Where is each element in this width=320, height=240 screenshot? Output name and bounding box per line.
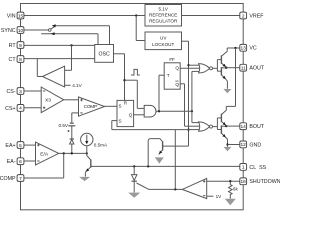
svg-text:CS+: CS+ bbox=[5, 106, 15, 112]
svg-text:5: 5 bbox=[19, 143, 22, 149]
svg-text:COMP: COMP bbox=[0, 176, 16, 182]
svg-text:3: 3 bbox=[19, 89, 22, 95]
svg-text:S: S bbox=[119, 119, 122, 124]
svg-text:9: 9 bbox=[19, 43, 22, 49]
svg-text:T: T bbox=[167, 73, 170, 78]
svg-text:LOCKOUT: LOCKOUT bbox=[152, 42, 174, 47]
svg-text:6: 6 bbox=[19, 159, 22, 165]
svg-text:13: 13 bbox=[241, 46, 247, 52]
svg-text:4.1V: 4.1V bbox=[72, 83, 82, 88]
svg-text:10: 10 bbox=[18, 28, 24, 34]
svg-text:UV: UV bbox=[160, 35, 167, 40]
svg-text:X3: X3 bbox=[45, 98, 51, 104]
svg-text:RT: RT bbox=[9, 43, 17, 49]
svg-text:E/A: E/A bbox=[40, 151, 49, 157]
svg-text:AOUT: AOUT bbox=[249, 66, 264, 72]
svg-text:1V: 1V bbox=[216, 194, 223, 199]
svg-text:0.5V: 0.5V bbox=[59, 123, 69, 128]
svg-text:0.5mA: 0.5mA bbox=[94, 143, 108, 148]
svg-text:6k: 6k bbox=[233, 186, 239, 191]
svg-text:BOUT: BOUT bbox=[249, 124, 264, 130]
svg-text:S: S bbox=[119, 104, 122, 109]
svg-text:8: 8 bbox=[19, 57, 22, 63]
svg-text:14: 14 bbox=[241, 124, 247, 130]
svg-text:15: 15 bbox=[18, 13, 24, 19]
svg-text:GND: GND bbox=[249, 142, 261, 148]
svg-text:CL SS: CL SS bbox=[249, 165, 266, 171]
svg-text:Q: Q bbox=[175, 82, 179, 87]
svg-text:FF: FF bbox=[169, 57, 175, 62]
svg-text:Q: Q bbox=[175, 66, 179, 71]
svg-text:VC: VC bbox=[249, 46, 257, 52]
svg-text:16: 16 bbox=[241, 179, 247, 185]
svg-text:CT: CT bbox=[9, 57, 17, 63]
svg-text:EA+: EA+ bbox=[5, 143, 15, 149]
svg-text:SHUTDOWN: SHUTDOWN bbox=[249, 179, 280, 185]
svg-text:12: 12 bbox=[241, 142, 247, 148]
svg-text:2: 2 bbox=[242, 13, 245, 19]
svg-text:5.1V: 5.1V bbox=[158, 7, 168, 12]
svg-text:CS-: CS- bbox=[6, 89, 15, 95]
svg-text:REGULATOR: REGULATOR bbox=[149, 18, 178, 23]
svg-text:7: 7 bbox=[19, 176, 22, 182]
svg-text:4: 4 bbox=[19, 106, 22, 112]
svg-text:REFERENCE: REFERENCE bbox=[149, 12, 177, 17]
svg-text:VIN: VIN bbox=[7, 13, 16, 19]
svg-text:EA-: EA- bbox=[7, 159, 16, 165]
svg-text:1: 1 bbox=[242, 165, 245, 171]
svg-text:OSC: OSC bbox=[98, 52, 109, 58]
svg-text:11: 11 bbox=[241, 66, 246, 72]
svg-text:SYNC: SYNC bbox=[1, 28, 16, 34]
svg-text:Q: Q bbox=[129, 112, 133, 117]
svg-text:VREF: VREF bbox=[249, 13, 264, 19]
svg-text:COMP: COMP bbox=[84, 104, 97, 109]
